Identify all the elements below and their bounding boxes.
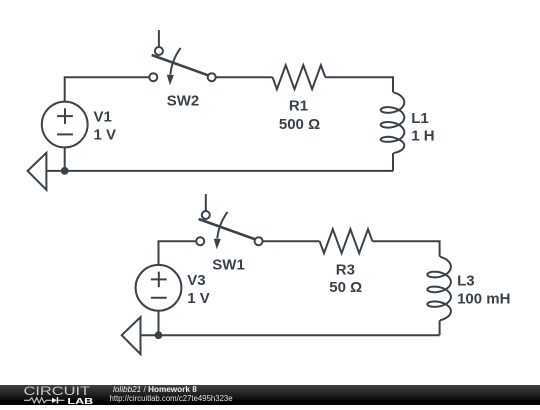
svg-text:R3: R3 <box>336 261 355 278</box>
svg-text:V1: V1 <box>94 109 112 126</box>
svg-text:L3: L3 <box>457 273 475 290</box>
svg-text:50 Ω: 50 Ω <box>329 279 362 296</box>
svg-text:SW2: SW2 <box>167 93 200 110</box>
svg-text:1 V: 1 V <box>94 127 117 144</box>
svg-text:LAB: LAB <box>67 397 93 405</box>
svg-text:R1: R1 <box>289 98 308 115</box>
svg-text:100 mH: 100 mH <box>457 291 510 308</box>
svg-text:1 V: 1 V <box>187 290 210 307</box>
svg-text:1 H: 1 H <box>411 127 434 144</box>
svg-text:SW1: SW1 <box>212 256 245 273</box>
svg-text:L1: L1 <box>411 110 429 127</box>
svg-text:V3: V3 <box>187 272 205 289</box>
svg-text:500 Ω: 500 Ω <box>279 116 320 133</box>
